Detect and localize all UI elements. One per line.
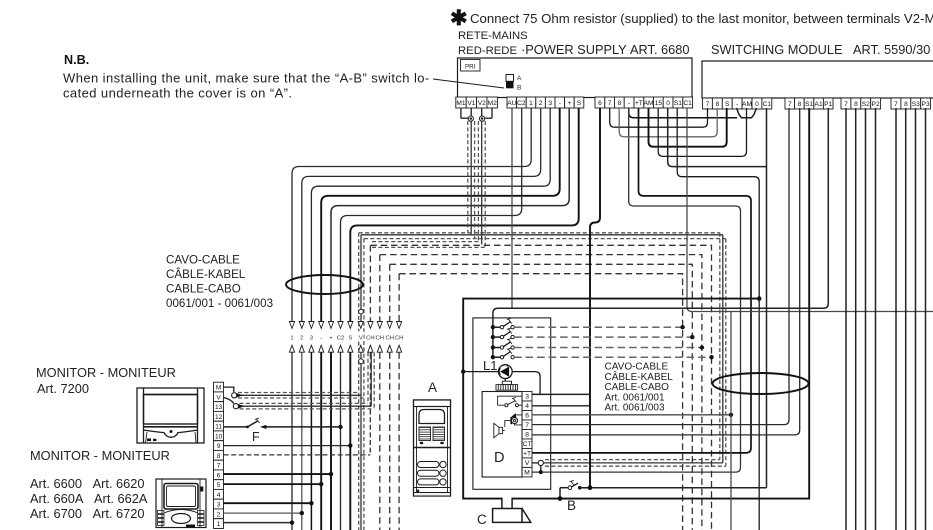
svg-text:ART. 5590/30: ART. 5590/30 <box>853 42 930 57</box>
channel switch 4 <box>491 355 495 359</box>
svg-text:7: 7 <box>894 101 898 108</box>
svg-text:B: B <box>517 85 521 92</box>
svg-text:+T: +T <box>635 100 643 107</box>
channel switch 2 <box>491 335 495 339</box>
power supply terminals 6 7 8 - +T AM 15 0 S1 C1 <box>595 97 605 108</box>
svg-text:PRI: PRI <box>465 64 476 71</box>
svg-text:RETE-MAINS: RETE-MAINS <box>458 30 528 42</box>
svg-text:F: F <box>252 430 260 444</box>
svg-text:CH: CH <box>366 335 375 341</box>
svg-text:Art. 660A Art. 662A: Art. 660A Art. 662A <box>30 491 148 506</box>
svg-text:3: 3 <box>217 502 221 509</box>
wire monitor terminal from 2 <box>224 512 302 514</box>
wire C2: power supply to down-arrow <box>341 108 522 321</box>
svg-text:3: 3 <box>525 394 529 401</box>
svg-text:7: 7 <box>706 101 710 108</box>
svg-text:·POWER SUPPLY: ·POWER SUPPLY <box>521 42 627 57</box>
jumper - to 0 (switching module) <box>737 108 757 118</box>
svg-text:C1: C1 <box>683 100 692 107</box>
svg-text:S: S <box>348 335 352 341</box>
switch 3 dashed channel row <box>514 347 702 349</box>
wire to horn <box>501 498 503 509</box>
wire monitor terminal from 3 <box>224 502 312 504</box>
outer enclosure rail <box>463 108 809 499</box>
svg-text:6: 6 <box>525 413 529 420</box>
svg-text:1: 1 <box>290 335 293 341</box>
wire CH3 dashed loop <box>390 264 693 530</box>
switch 4 dashed channel row <box>514 356 711 358</box>
svg-text:S: S <box>577 100 582 107</box>
svg-text:MONITOR - MONITEUR: MONITOR - MONITEUR <box>30 448 170 463</box>
power supply terminals AU C2 1 2 3 - + S <box>507 97 517 108</box>
wire CH2 below arrows <box>379 352 381 530</box>
wire 0 to switching C1 vertical <box>668 108 767 167</box>
svg-text:MONITOR - MONITEUR: MONITOR - MONITEUR <box>36 365 176 380</box>
monitor Art.7200 drawing <box>137 388 204 443</box>
monitor V-13 curve <box>224 398 234 404</box>
switch B <box>560 487 568 489</box>
svg-text:V: V <box>525 460 530 467</box>
svg-text:S1: S1 <box>805 101 813 108</box>
svg-text:SWITCHING MODULE: SWITCHING MODULE <box>711 42 843 57</box>
wire +: power supply to down-arrow <box>331 108 569 321</box>
wire switching 7b down <box>895 108 897 530</box>
wire 6 to B vertical <box>590 108 600 488</box>
coax 13 horizontal run <box>372 241 478 243</box>
wire monitor 9 <box>224 445 351 447</box>
svg-text:7: 7 <box>525 422 529 429</box>
cable ellipse left <box>286 275 363 294</box>
power supply box <box>458 58 693 98</box>
coax 13 shield dashes (power supply down) <box>477 121 479 242</box>
svg-text:Art. 0061/003: Art. 0061/003 <box>605 403 665 414</box>
svg-text:7: 7 <box>788 101 792 108</box>
svg-text:-: - <box>736 101 738 108</box>
svg-text:8: 8 <box>798 101 802 108</box>
switch F on monitor wire 11 <box>224 426 248 428</box>
wire switching 8a down <box>855 108 857 530</box>
svg-text:V: V <box>359 335 363 341</box>
wire S1 down to junction <box>677 108 759 530</box>
svg-text:15: 15 <box>655 100 663 107</box>
svg-text:13: 13 <box>215 404 223 411</box>
svg-text:8: 8 <box>525 432 529 439</box>
wire S vertical to bottom edge <box>349 352 351 530</box>
svg-text:V2: V2 <box>478 100 486 107</box>
wire 3: power supply to down-arrow <box>311 108 550 321</box>
svg-text:A1: A1 <box>815 101 823 108</box>
svg-text:CÂBLE-KABEL: CÂBLE-KABEL <box>605 370 674 383</box>
svg-text:1: 1 <box>217 521 221 528</box>
wire monitor 8 dashed <box>224 454 371 456</box>
coax 13 vertical to monitor <box>367 352 369 403</box>
svg-text:9: 9 <box>217 443 221 450</box>
arrow labels overlay V CH <box>358 331 364 340</box>
coax 13 horizontal to monitor 13 terminal <box>240 402 369 404</box>
wire 2 vertical to bottom edge <box>301 352 303 530</box>
junction C2 to F wire <box>338 425 342 429</box>
svg-text:8: 8 <box>217 453 221 460</box>
svg-text:V: V <box>216 394 221 401</box>
coax D-V horizontal <box>545 459 720 461</box>
svg-text:C2: C2 <box>337 335 345 341</box>
svg-text:10: 10 <box>215 433 223 440</box>
svg-text:-: - <box>559 100 561 107</box>
svg-text:4: 4 <box>217 492 221 499</box>
A-B selector switch <box>506 75 514 82</box>
svg-text:L1: L1 <box>483 358 497 373</box>
unit D terminal strip 3 4 6 7 8 CT +T V M <box>522 392 532 401</box>
coax V horizontal run <box>359 232 720 234</box>
switching module box <box>702 61 933 98</box>
svg-text:S2: S2 <box>862 101 870 108</box>
wire 2: power supply to down-arrow <box>302 108 541 321</box>
svg-text:✱: ✱ <box>450 7 468 30</box>
svg-text:ART. 6680: ART. 6680 <box>630 42 690 57</box>
wire unit D terminal 7 <box>532 108 789 425</box>
svg-text:P1: P1 <box>824 101 832 108</box>
coax V horizontal to monitor V terminal <box>238 392 359 394</box>
wire + vertical to bottom edge <box>330 352 332 530</box>
svg-text:S1: S1 <box>674 100 682 107</box>
svg-text:7: 7 <box>217 463 221 470</box>
wire switching P2 down <box>875 108 877 530</box>
svg-text:8: 8 <box>716 101 720 108</box>
svg-text:CÂBLE-KABEL: CÂBLE-KABEL <box>166 268 246 281</box>
unit D box <box>482 392 522 478</box>
wire monitor terminal from - <box>224 483 322 485</box>
svg-text:-: - <box>320 335 322 341</box>
wire unit D terminal 6 <box>532 414 731 416</box>
wire 1 vertical to bottom edge <box>291 352 293 530</box>
wire AM to switching S <box>649 108 727 147</box>
switch bus from P1 <box>493 108 828 357</box>
wire CH4 dashed loop <box>399 274 682 530</box>
svg-text:8: 8 <box>618 100 622 107</box>
svg-text:+T: +T <box>523 451 531 458</box>
wire switching 8b down <box>905 108 907 530</box>
switch 2 dashed channel row <box>514 336 692 338</box>
svg-text:M2: M2 <box>488 100 497 107</box>
door entrance panel A drawing <box>414 400 451 496</box>
wire unit D terminal 8 <box>532 108 800 435</box>
svg-text:CAVO-CABLE: CAVO-CABLE <box>166 254 240 267</box>
svg-text:C: C <box>477 512 487 527</box>
wire 8 to switching 8 <box>619 108 717 137</box>
svg-text:0061/001 - 0061/003: 0061/001 - 0061/003 <box>166 297 273 310</box>
cable arrows row with labels 1 2 3 - + C2 S V CH CH CH CH <box>289 322 294 329</box>
wire unit D terminal 4 <box>532 405 590 407</box>
svg-text:A: A <box>428 380 437 395</box>
channel switch 3 <box>491 345 495 349</box>
svg-text:CH: CH <box>376 335 385 341</box>
svg-text:RED-REDE: RED-REDE <box>458 45 517 57</box>
svg-text:CH: CH <box>395 335 404 341</box>
svg-text:AU: AU <box>507 100 516 107</box>
svg-text:2: 2 <box>539 100 543 107</box>
svg-text:D: D <box>494 450 504 466</box>
wire AU down <box>511 108 513 308</box>
svg-text:0: 0 <box>666 100 670 107</box>
wire switching 7a down <box>845 108 847 530</box>
coax V vertical to unit D <box>719 233 721 460</box>
svg-text:+: + <box>567 100 571 107</box>
svg-text:M1: M1 <box>456 100 465 107</box>
switching module terminals 7 8 S3 P3 <box>891 98 901 109</box>
inner enclosure box <box>473 318 551 489</box>
svg-text:Art. 6700 Art. 6720: Art. 6700 Art. 6720 <box>30 506 145 521</box>
svg-text:P2: P2 <box>872 101 880 108</box>
wire switching P3 down <box>925 108 927 530</box>
wire unit D terminal 3 <box>512 372 540 395</box>
svg-text:AM: AM <box>644 100 654 107</box>
svg-text:cated underneath the cover is: cated underneath the cover is on “A”. <box>63 86 292 101</box>
wire - to -/0 jumper branch <box>629 108 737 118</box>
wire vertical at 731 <box>730 312 732 530</box>
pointer line to A-B switch <box>433 79 504 88</box>
coax connector V1 <box>460 108 462 118</box>
svg-text:C2: C2 <box>517 100 526 107</box>
horn speaker C <box>493 509 522 523</box>
svg-text:7: 7 <box>844 101 848 108</box>
svg-text:7: 7 <box>608 100 612 107</box>
monitor 8 dashed vertical link <box>369 402 371 455</box>
svg-text:V1: V1 <box>467 100 475 107</box>
wire +T to unit D terminal +T <box>532 108 751 453</box>
svg-text:8: 8 <box>904 101 908 108</box>
unit D microphone <box>512 418 518 424</box>
svg-text:Art. 7200: Art. 7200 <box>37 381 89 396</box>
wire -: power supply to down-arrow <box>321 108 560 321</box>
wire monitor terminal from 1 <box>224 522 292 524</box>
wire switching S2 down <box>865 108 867 530</box>
wire CH2 dashed loop <box>380 255 702 530</box>
coax connector V2 <box>491 108 493 118</box>
svg-text:12: 12 <box>215 414 223 421</box>
svg-text:5: 5 <box>217 482 221 489</box>
svg-text:+: + <box>329 335 333 341</box>
cable ellipse right <box>713 373 809 394</box>
wire - vertical to bottom edge <box>320 352 322 530</box>
unit D hook switch <box>498 396 522 405</box>
wire 3 vertical to bottom edge <box>310 352 312 530</box>
svg-text:C1: C1 <box>763 101 772 108</box>
connector comb <box>496 381 518 390</box>
svg-text:B: B <box>567 498 576 513</box>
svg-text:M: M <box>524 470 530 477</box>
svg-text:6: 6 <box>598 100 602 107</box>
PRI label box <box>461 60 481 72</box>
svg-text:11: 11 <box>215 424 222 431</box>
wire CH3 below arrows <box>389 352 391 530</box>
svg-text:S: S <box>725 101 730 108</box>
switching module terminals 7 8 S2 P2 <box>841 98 851 109</box>
wire 7 to switching 7 <box>610 108 708 127</box>
svg-text:Art. 6600 Art. 6620: Art. 6600 Art. 6620 <box>30 476 145 491</box>
wire CH1 below arrows <box>369 352 371 402</box>
svg-text:3: 3 <box>548 100 552 107</box>
monitor M-V link <box>224 387 234 392</box>
wire C1 long horizontal <box>687 108 933 312</box>
svg-text:P3: P3 <box>922 101 930 108</box>
svg-text:S3: S3 <box>912 101 920 108</box>
svg-text:4: 4 <box>525 403 529 410</box>
unit D speaker <box>499 427 503 433</box>
switch 1 dashed channel row <box>514 326 683 328</box>
svg-text:-: - <box>628 100 630 107</box>
wire switching C1 down <box>766 108 768 488</box>
svg-text:8: 8 <box>854 101 858 108</box>
svg-text:AM: AM <box>742 101 752 108</box>
wire C2 vertical to bottom edge <box>340 352 342 530</box>
switching module terminals 7 8 S1 A1 P1 <box>785 98 795 109</box>
svg-text:2: 2 <box>300 335 303 341</box>
svg-text:6: 6 <box>217 472 221 479</box>
svg-text:0: 0 <box>755 101 759 108</box>
svg-text:1: 1 <box>529 100 533 107</box>
wire switching S3 down <box>915 108 917 530</box>
svg-text:Connect 75 Ohm resistor (suppl: Connect 75 Ohm resistor (supplied) to th… <box>470 11 933 26</box>
monitor Art.6600-6720 drawing <box>156 479 206 528</box>
wire S: power supply to down-arrow <box>350 108 578 321</box>
svg-text:When installing the unit, make: When installing the unit, make sure that… <box>63 71 430 86</box>
wire monitor terminal from + <box>224 473 331 475</box>
wire CH1 dashed loop <box>370 245 711 530</box>
power supply terminals M1 V1 V2 M2 <box>456 97 466 108</box>
svg-text:A: A <box>517 75 522 82</box>
coax V vertical to monitor <box>358 233 360 530</box>
svg-text:M: M <box>216 385 221 392</box>
lamp L1 <box>463 371 498 373</box>
wire CH4 below arrows <box>398 352 400 530</box>
svg-text:CH: CH <box>385 335 394 341</box>
svg-text:N.B.: N.B. <box>64 53 89 67</box>
channel switch 1 <box>491 325 495 329</box>
svg-text:CABLE-CABO: CABLE-CABO <box>166 283 241 296</box>
coax V shield dashes (power supply down) <box>467 121 469 233</box>
monitor terminal column M V 13..1 <box>214 382 224 392</box>
svg-text:2: 2 <box>217 511 221 518</box>
wire 15 to switching AM <box>658 108 746 156</box>
wire 1: power supply to down-arrow <box>292 108 531 321</box>
wire - to unit D terminal M <box>532 108 741 472</box>
svg-text:CT: CT <box>523 441 532 448</box>
switching module terminals 7 8 S - AM 0 C1 <box>703 98 713 109</box>
